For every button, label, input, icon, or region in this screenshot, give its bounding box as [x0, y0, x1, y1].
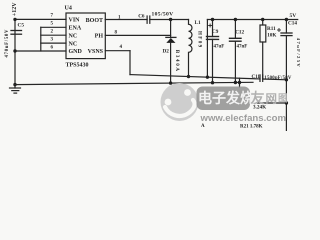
inductor L1 [189, 20, 193, 77]
wire GND pin tie [15, 50, 66, 52]
svg-text:网: 网 [266, 92, 278, 105]
diode D1 [166, 20, 176, 84]
node junction GND tie [13, 49, 16, 52]
diode D1 value label B340A [174, 50, 179, 73]
pin label ENA [69, 26, 82, 32]
wire output rail [207, 19, 297, 21]
capacitor C6 value label [152, 12, 174, 18]
capacitor C12 label [235, 30, 244, 36]
resistor R21 labels [240, 125, 263, 130]
diode D2 refdes label [163, 48, 170, 54]
watermark logo circle [161, 83, 199, 121]
pin number 8 [115, 31, 118, 36]
wire divider drop near C12 [239, 78, 241, 87]
resistor R11 [260, 20, 266, 80]
svg-text:R11: R11 [267, 26, 276, 32]
capacitor C9 value label [214, 44, 225, 49]
op-amp U4 part label TPS5430 [66, 62, 89, 68]
svg-text:C12: C12 [235, 30, 244, 36]
op-amp U4 refdes label [65, 6, 72, 12]
node junction rail drop bottom [206, 75, 209, 78]
capacitor C14 [281, 20, 292, 132]
wire PH pin 8 stub [105, 34, 170, 36]
capacitor C14 label [288, 21, 297, 27]
pin label PH [95, 34, 104, 40]
svg-text:R21 1.78K: R21 1.78K [240, 125, 263, 130]
inductor L1 refdes label [195, 20, 201, 26]
watermark bar [197, 87, 251, 111]
svg-text:105/50V: 105/50V [152, 12, 174, 18]
wire BOOT pin 1 to C6 [105, 19, 147, 21]
svg-text:47uF: 47uF [214, 44, 225, 49]
wire pin 5 stub [41, 26, 66, 28]
wire VSNS drop [129, 51, 131, 75]
op-amp U4 box TPS5430 [66, 13, 105, 59]
wire feedback line [130, 75, 260, 79]
pin label GND [69, 49, 83, 55]
pin number 7 [51, 14, 54, 19]
wire pin 3 stub [41, 42, 66, 44]
svg-text:NC: NC [69, 33, 78, 39]
pin label VIN [69, 18, 81, 24]
svg-text:PH: PH [95, 34, 104, 40]
svg-text:BOOT: BOOT [86, 18, 103, 24]
svg-text:NC: NC [69, 41, 78, 47]
node junction C12 bottom [234, 81, 237, 84]
pin number 2 [51, 30, 54, 35]
wire VIN feed horizontal [15, 18, 66, 20]
wire C6 to PH rail [150, 19, 189, 21]
svg-text:GND: GND [69, 49, 83, 55]
pin label NC lower [69, 41, 78, 47]
resistor R11 value label [267, 33, 276, 39]
node junction C14 top [285, 18, 288, 21]
capacitor C12 [230, 20, 242, 83]
capacitor C6 [147, 16, 150, 23]
pin number 3 [51, 37, 54, 42]
pin number 6 [51, 45, 54, 50]
capacitor C9 [207, 20, 219, 83]
pin label NC upper [69, 33, 78, 39]
svg-text:C11: C11 [252, 75, 261, 80]
wire feedback line right of C11 [263, 78, 287, 81]
pin number 1 [118, 15, 121, 20]
node junction feedback at C14 wire [285, 78, 288, 81]
capacitor C11 label [252, 75, 261, 80]
node label small A [201, 124, 205, 129]
svg-text:5V: 5V [290, 13, 297, 19]
node junction C9 bottom [211, 81, 214, 84]
svg-text:ENA: ENA [69, 26, 82, 32]
inductor L1 value label [196, 31, 201, 49]
wire ground bus [15, 82, 253, 84]
svg-text:D2: D2 [163, 48, 170, 54]
capacitor C14 polarity plus [278, 29, 281, 32]
node junction +12V corner [13, 18, 16, 21]
wire pin 2 stub [41, 34, 66, 36]
node junction rail at bus [13, 83, 16, 86]
svg-text:C9: C9 [212, 29, 219, 35]
capacitor C12 value label [237, 45, 248, 50]
capacitor C5 [11, 31, 22, 35]
node +12V label [12, 2, 18, 16]
svg-text:47uF/25V: 47uF/25V [296, 38, 301, 68]
svg-text:www.elecfans.com: www.elecfans.com [200, 113, 287, 124]
wire VSNS pin 4 stub [105, 50, 130, 52]
node junction C12 top [234, 18, 237, 21]
capacitor C5 label [18, 23, 25, 29]
node junction divider drop at bus [238, 81, 241, 84]
node 5V label [290, 13, 297, 19]
capacitor C5 value label [5, 29, 10, 58]
svg-text:A: A [201, 124, 205, 129]
node junction divider tap [285, 101, 288, 104]
capacitor C9 label [212, 29, 219, 35]
wire output rail drop to feedback line [206, 20, 208, 78]
svg-text:U4: U4 [65, 6, 72, 12]
capacitor C11 value label [264, 76, 292, 81]
svg-text:L1: L1 [195, 20, 201, 26]
svg-text:HF09: HF09 [196, 31, 201, 49]
resistor R20 value label [253, 105, 266, 111]
svg-text:VIN: VIN [69, 18, 81, 24]
pin number 5 [51, 22, 54, 27]
svg-text:470uF/50V: 470uF/50V [5, 29, 10, 58]
node junction D1 anode at ground bus [169, 81, 172, 84]
svg-text:C14: C14 [288, 21, 297, 27]
wire pins 5-2-3 tie vertical [40, 27, 42, 51]
node junction D1 top [169, 18, 172, 21]
svg-text:图: 图 [278, 93, 288, 104]
svg-text:电子发烧: 电子发烧 [198, 90, 254, 106]
capacitor C14 value label [296, 38, 301, 68]
resistor R11 refdes label [267, 26, 276, 32]
svg-text:C6: C6 [138, 13, 145, 19]
pin label VSNS [88, 49, 104, 55]
ground [10, 85, 21, 94]
pin number 4 [120, 45, 123, 50]
wire +12V rail vertical [14, 19, 16, 84]
capacitor C11 [260, 75, 263, 82]
svg-text:C5: C5 [18, 23, 25, 29]
svg-text:B340A: B340A [174, 50, 179, 73]
svg-text:47nF: 47nF [237, 45, 248, 50]
svg-text:友: 友 [251, 90, 265, 106]
capacitor C6 label [138, 13, 145, 19]
svg-text:10K: 10K [267, 33, 276, 39]
wire divider tap horizontal [258, 102, 287, 104]
pin label BOOT [86, 18, 103, 24]
node junction R11 top [261, 18, 264, 21]
svg-text:TPS5430: TPS5430 [66, 62, 89, 68]
node junction C9 top [211, 18, 214, 21]
svg-text:VSNS: VSNS [88, 49, 104, 55]
capacitor C9 polarity plus [209, 24, 212, 27]
svg-text:+12V: +12V [12, 2, 18, 16]
node junction L1 bottom [187, 75, 190, 78]
